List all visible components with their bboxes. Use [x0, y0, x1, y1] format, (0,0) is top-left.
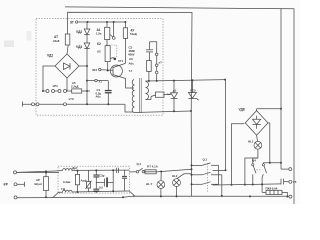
svg-text:0,5: 0,5	[99, 185, 103, 189]
svg-text:VД1: VД1	[47, 54, 53, 58]
svg-text:ПХ8 0,04: ПХ8 0,04	[266, 187, 278, 191]
svg-text:У1: У1	[99, 80, 103, 84]
svg-text:ЗТ: ЗТ	[70, 21, 74, 25]
svg-text:VД2: VД2	[76, 30, 82, 34]
svg-text:Аб: Аб	[129, 57, 133, 61]
svg-text:2,2кД: 2,2кД	[71, 84, 78, 88]
svg-text:НL1: НL1	[248, 140, 254, 144]
svg-text:VД3: VД3	[76, 45, 82, 49]
svg-text:ДрТ: ДрТ	[72, 166, 78, 170]
svg-text:400У: 400У	[128, 53, 135, 57]
svg-text:Абс: Абс	[129, 62, 135, 66]
svg-text:1,5к: 1,5к	[96, 32, 102, 36]
svg-text:VСЗ: VСЗ	[190, 88, 196, 92]
svg-text:VТ1: VТ1	[118, 59, 124, 63]
svg-text:Абс: Абс	[96, 95, 102, 99]
svg-text:НL2: НL2	[172, 174, 178, 178]
svg-text:Ауф: Ауф	[81, 178, 88, 182]
svg-text:Q.1: Q.1	[203, 158, 208, 162]
svg-text:ЗУ2: ЗУ2	[92, 68, 97, 72]
svg-text:хР4: хР4	[53, 84, 58, 88]
svg-text:24х8: 24х8	[53, 39, 60, 43]
svg-text:СЗµ: СЗµ	[99, 173, 105, 177]
svg-text:51кД: 51кД	[130, 32, 137, 36]
svg-text:VД8: VД8	[239, 108, 245, 112]
svg-text:Q.1: Q.1	[137, 162, 142, 166]
svg-text:0,4мк: 0,4мк	[63, 180, 71, 184]
svg-text:хТЗ: хТЗ	[69, 97, 74, 101]
svg-text:Т.Г: Т.Г	[129, 69, 133, 73]
svg-text:Тф: Тф	[61, 187, 66, 191]
svg-text:А2: А2	[97, 50, 101, 54]
svg-text:У5: У5	[293, 180, 297, 184]
svg-text:НL.Т: НL.Т	[146, 182, 153, 186]
svg-text:хТ: хТ	[159, 61, 163, 65]
svg-text:д1: д1	[173, 89, 177, 93]
svg-text:К2: К2	[97, 42, 101, 46]
svg-text:Р.Т 4,1А: Р.Т 4,1А	[147, 164, 158, 168]
svg-text:Шунт: Шунт	[35, 182, 43, 186]
